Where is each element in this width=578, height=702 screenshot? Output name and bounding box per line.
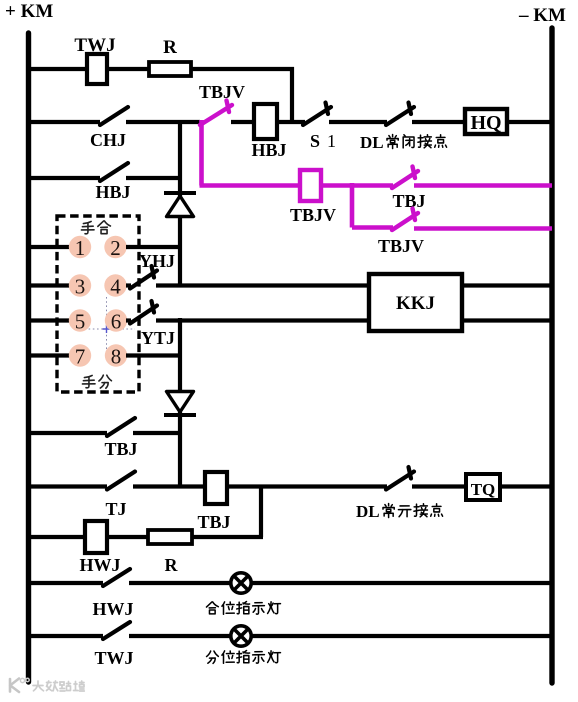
box KKJ	[369, 274, 462, 331]
watermark logo	[10, 679, 19, 693]
wire magenta coil to junction	[321, 183, 354, 188]
contact TWJ	[103, 622, 130, 639]
lamp close-position indicator	[231, 573, 251, 593]
wire HWJ row from +bus	[27, 535, 86, 539]
svg-text:YTJ: YTJ	[141, 328, 175, 348]
svg-text:TBJ: TBJ	[104, 439, 137, 459]
diode D2	[167, 392, 194, 413]
wire branch down at 261	[259, 487, 263, 538]
terminal 2	[104, 236, 126, 258]
wire to lamp2	[129, 634, 232, 638]
svg-text:TWJ: TWJ	[74, 35, 115, 56]
coil HWJ	[85, 521, 107, 553]
wire row2 c	[277, 120, 305, 124]
terminal 7	[69, 344, 91, 366]
contact YHJ	[130, 271, 157, 289]
label shou-fen	[82, 375, 95, 387]
svg-text:+ KM: + KM	[5, 1, 53, 22]
svg-text:DL: DL	[360, 133, 384, 152]
wire to lamp1	[129, 581, 232, 585]
svg-text:TBJ: TBJ	[197, 512, 230, 532]
terminal 6	[105, 309, 127, 331]
contact HBJ	[100, 163, 128, 181]
svg-text:R: R	[165, 555, 179, 575]
dashed box (manual switch)	[57, 216, 139, 392]
wire TWJ lamp row from +bus	[27, 634, 103, 638]
contact TBJV (magenta)	[200, 105, 232, 125]
contact HWJ	[103, 569, 130, 586]
svg-text:TWJ: TWJ	[94, 648, 133, 668]
wire row3 to vertical	[126, 176, 182, 180]
terminal 1	[69, 236, 91, 258]
wire HWJ to R2	[107, 535, 149, 539]
positive bus +KM	[26, 33, 31, 682]
svg-text:3: 3	[75, 275, 86, 299]
wire magenta TBJ to -bus	[414, 183, 552, 188]
contact TBJ	[107, 418, 135, 436]
wire vertical A lower	[178, 215, 182, 287]
svg-text:TBJ: TBJ	[392, 191, 425, 211]
terminal 3	[69, 274, 91, 296]
wire stub to terminal 5	[27, 318, 70, 322]
wire terminal2 to vertical A	[126, 245, 182, 249]
terminal 4	[104, 274, 126, 296]
wire row1 mid	[107, 67, 150, 71]
wire row2 b	[231, 120, 255, 124]
svg-text:5: 5	[75, 310, 86, 334]
svg-text:HWJ: HWJ	[92, 599, 133, 619]
svg-text:HBJ: HBJ	[251, 140, 286, 160]
svg-text:YHJ: YHJ	[139, 251, 175, 271]
coil TBJ	[205, 472, 227, 504]
wire lamp1 to -bus	[251, 581, 551, 585]
wire TBJ row to vertical B	[133, 431, 182, 435]
contact CHJ	[100, 107, 128, 125]
terminal 8	[105, 344, 127, 366]
svg-text:4: 4	[110, 275, 121, 299]
wire row2 d	[329, 120, 387, 124]
label shou-he	[81, 221, 94, 233]
wire magenta junction to TBJ contact	[352, 183, 393, 188]
resistor R2	[148, 530, 192, 544]
svg-text:KKJ: KKJ	[396, 293, 435, 314]
wire stub to terminal 3	[27, 283, 70, 287]
contact DL NO	[386, 472, 414, 490]
contact TBJV lower (magenta)	[392, 213, 418, 230]
wire row1 right	[191, 67, 294, 71]
svg-text:7: 7	[75, 345, 86, 369]
wire vertical A upper	[178, 120, 182, 196]
wire magenta junction drop	[350, 183, 355, 228]
coil HBJ	[254, 104, 277, 139]
svg-text:2: 2	[110, 236, 121, 260]
svg-text:DL: DL	[356, 502, 380, 521]
wire TQ to -bus	[500, 484, 551, 488]
svg-text:1: 1	[75, 236, 86, 260]
svg-text:6: 6	[111, 310, 122, 334]
wire TBJ row from +bus	[27, 431, 107, 435]
contact TJ	[107, 472, 135, 490]
contact S1	[303, 107, 331, 125]
wire magenta vertical drop	[199, 120, 204, 186]
label he-wei lamp	[206, 602, 218, 614]
dotted crosshair	[76, 297, 135, 358]
wire row2 to -bus	[507, 120, 551, 124]
contact DL NC	[386, 107, 414, 125]
box TQ	[466, 474, 500, 500]
wire stub to terminal 7	[27, 353, 70, 357]
lamp open-position indicator	[231, 626, 251, 646]
watermark text	[33, 681, 84, 691]
box HQ	[465, 109, 507, 134]
wire magenta lower horiz	[352, 225, 393, 230]
wire drop to row2	[290, 67, 294, 124]
coil TWJ	[87, 54, 107, 84]
wire row2 e	[412, 120, 466, 124]
svg-text:HQ: HQ	[470, 112, 501, 134]
diode D1	[164, 191, 196, 195]
svg-text:HBJ: HBJ	[95, 182, 130, 202]
svg-text:TBJV: TBJV	[290, 205, 336, 225]
label fen-wei lamp	[207, 651, 219, 663]
terminal 5	[69, 309, 91, 331]
wire KKJ out bottom	[462, 318, 551, 322]
svg-text:R: R	[163, 37, 177, 58]
wire stub to terminal 1	[27, 245, 70, 249]
wire DL NO to TQ	[412, 484, 467, 488]
wire TJ to coil	[133, 484, 206, 488]
svg-text:TBJV: TBJV	[199, 82, 245, 102]
wire HWJ lamp row from +bus	[27, 581, 103, 585]
wire YHJ to KKJ	[156, 283, 370, 287]
svg-text:S1: S1	[310, 131, 336, 151]
wire row1 left	[27, 67, 88, 71]
wire YTJ to KKJ	[156, 318, 370, 322]
wire row3 from +bus	[27, 176, 100, 180]
svg-text:TJ: TJ	[105, 499, 126, 519]
contact TBJ (magenta)	[392, 171, 418, 188]
svg-text:TBJV: TBJV	[378, 236, 424, 256]
svg-text:– KM: – KM	[518, 5, 566, 26]
svg-text:8: 8	[111, 345, 122, 369]
wire magenta lower to -bus	[414, 226, 552, 231]
negative bus -KM	[549, 28, 554, 683]
wire R2 to branch	[192, 535, 263, 539]
svg-text:TQ: TQ	[471, 480, 496, 499]
wire KKJ out top	[462, 283, 551, 287]
svg-text:HWJ: HWJ	[79, 555, 120, 575]
wire coil to DL NO	[227, 484, 387, 488]
wire vertical B lower	[178, 412, 182, 488]
wire TJ row from +bus	[27, 484, 107, 488]
wire row2 from +bus	[27, 120, 100, 124]
contact YTJ	[130, 306, 157, 324]
wire terminal8 to vertical B	[126, 353, 182, 357]
resistor R1	[149, 62, 191, 76]
wire row2 a	[126, 120, 200, 124]
svg-text:CHJ: CHJ	[90, 130, 126, 150]
wire lamp2 to -bus	[251, 634, 551, 638]
wire terminal6 to YTJ	[126, 318, 131, 322]
wire magenta horiz to coil	[200, 183, 302, 188]
coil TBJV (magenta)	[300, 170, 321, 201]
wire vertical B upper	[178, 318, 182, 393]
wire terminal4 to YHJ	[126, 283, 131, 287]
